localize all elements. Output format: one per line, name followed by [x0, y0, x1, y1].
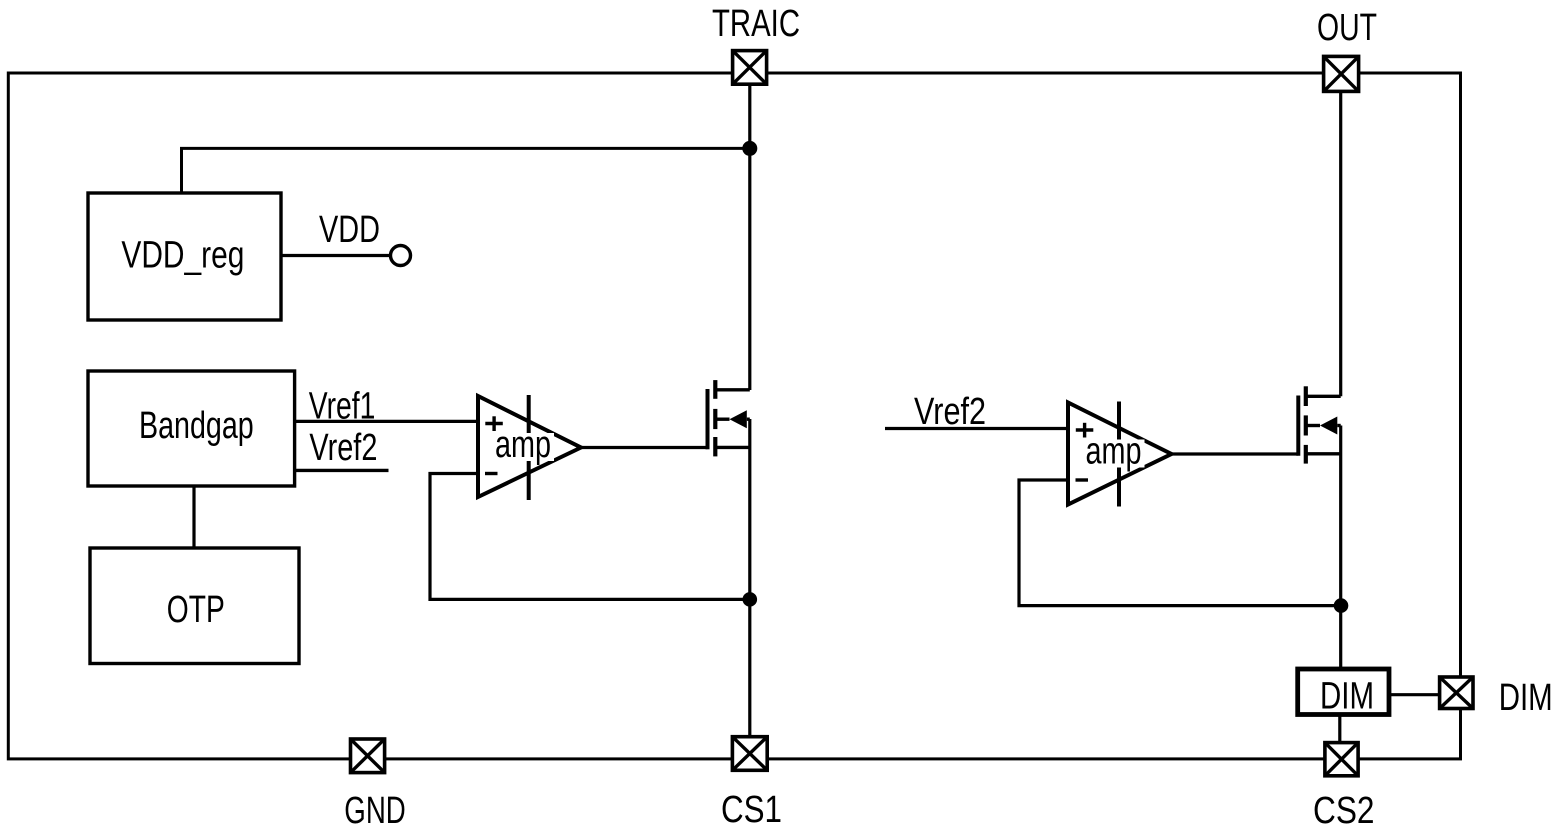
op-amp U2 bias tick — [1117, 402, 1121, 507]
svg-text:DIM: DIM — [1320, 676, 1374, 718]
svg-text:Vref1: Vref1 — [309, 386, 376, 428]
svg-text:Vref2: Vref2 — [309, 427, 377, 469]
op-amp U1 triangle — [478, 396, 581, 497]
terminal VDD circle — [391, 246, 411, 266]
pin CS2 — [1325, 743, 1358, 776]
svg-text:TRAIC: TRAIC — [712, 3, 800, 45]
svg-text:CS1: CS1 — [721, 789, 782, 831]
wire Q2 source to DIM block — [1339, 426, 1342, 670]
transistor Q1 body lead and arrow — [715, 418, 729, 421]
op-amp U2 label amp — [1083, 440, 1145, 468]
transistor Q2 gate bar — [1296, 396, 1300, 456]
svg-text:OUT: OUT — [1317, 7, 1377, 49]
svg-text:amp: amp — [1086, 431, 1142, 473]
wire Vref2 to U2 + input — [885, 427, 1068, 430]
svg-text:Vref2: Vref2 — [914, 391, 986, 433]
block Bandgap — [88, 371, 295, 486]
transistor Q2 channel dashes — [1304, 386, 1308, 406]
block DIM — [1298, 669, 1389, 715]
pin GND — [351, 739, 385, 773]
op-amp U1 minus sign — [485, 472, 498, 475]
wire U1 inverting feedback loop — [430, 474, 750, 600]
transistor Q1 source lead — [715, 446, 750, 449]
op-amp U2 plus sign — [1076, 428, 1094, 431]
svg-text:Bandgap: Bandgap — [139, 405, 254, 447]
wire U2 inverting feedback loop — [1019, 480, 1341, 606]
chip outline — [8, 73, 1460, 759]
svg-text:OTP: OTP — [167, 589, 225, 631]
wire DIM block to CS2 pin — [1338, 715, 1341, 743]
wire OUT pin to Q2 drain — [1339, 91, 1342, 396]
transistor Q2 body lead and arrow — [1306, 424, 1320, 427]
block OTP — [90, 548, 299, 664]
svg-text:DIM: DIM — [1499, 677, 1553, 719]
pin DIM — [1440, 677, 1473, 709]
junction dot CS1 net — [743, 592, 758, 607]
transistor Q1 drain lead — [715, 388, 750, 391]
wire U1 output to Q1 gate — [581, 446, 708, 449]
svg-text:amp: amp — [495, 424, 551, 466]
svg-text:GND: GND — [344, 790, 406, 832]
wire U2 output to Q2 gate — [1172, 452, 1299, 455]
transistor Q2 source lead — [1306, 452, 1341, 455]
wire VDD output — [281, 254, 391, 257]
wire DIM block to DIM pin — [1389, 693, 1440, 696]
junction dot CS2 net — [1334, 598, 1349, 613]
wire Bandgap to OTP — [192, 486, 195, 548]
svg-text:CS2: CS2 — [1313, 790, 1375, 832]
wire Vref1 Bandgap to U1 + input — [295, 420, 478, 423]
op-amp U1 label amp — [492, 433, 554, 461]
wire VDD_reg top to TRAIC net — [182, 148, 750, 193]
op-amp U1 plus sign — [485, 422, 503, 425]
wire TRAIC pin to Q1 drain — [748, 84, 751, 390]
transistor Q2 drain lead — [1306, 395, 1341, 398]
transistor Q1 gate bar — [706, 389, 710, 449]
block VDD_reg — [88, 193, 281, 320]
pin TRAIC — [733, 51, 767, 85]
wire Vref2 stub from Bandgap — [295, 469, 389, 472]
junction dot TRAIC net — [742, 141, 757, 156]
svg-text:VDD: VDD — [319, 209, 380, 251]
op-amp U1 bias tick — [527, 395, 531, 500]
op-amp U2 triangle — [1068, 403, 1172, 505]
pin OUT — [1324, 56, 1359, 91]
transistor Q1 channel dashes — [713, 380, 717, 399]
op-amp U2 minus sign — [1076, 478, 1089, 481]
svg-text:VDD_reg: VDD_reg — [121, 235, 244, 277]
wire Q1 source to CS1 pin — [748, 419, 751, 737]
pin CS1 — [732, 737, 767, 771]
